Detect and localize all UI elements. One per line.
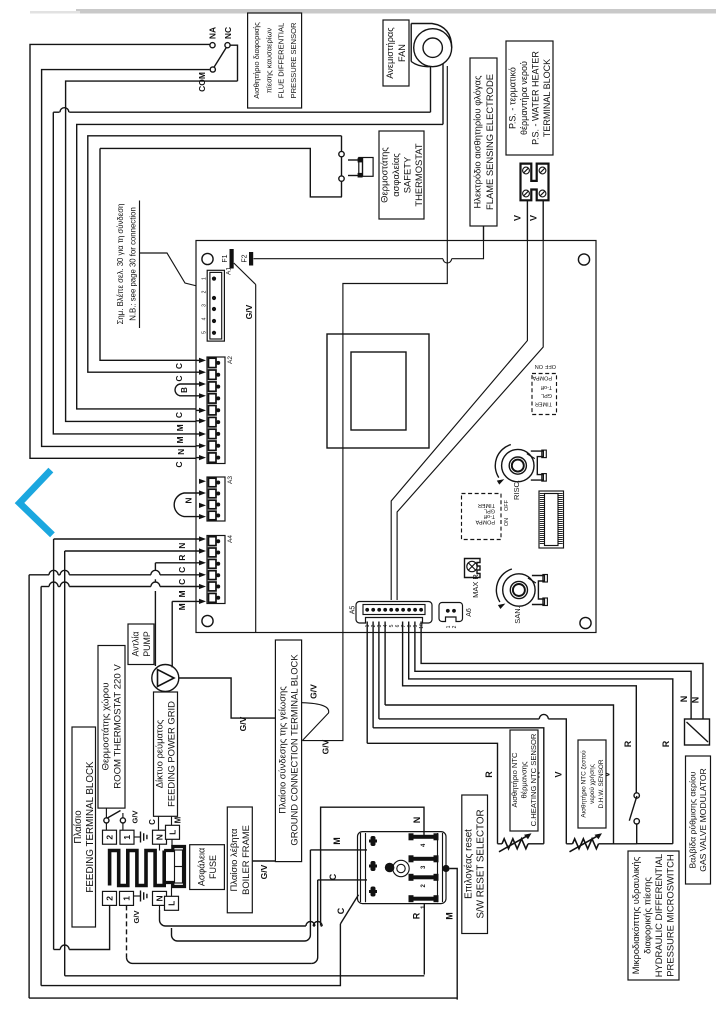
svg-text:OFF: OFF xyxy=(504,499,510,511)
svg-text:Ασφάλεια: Ασφάλεια xyxy=(196,848,206,886)
svg-text:ON: ON xyxy=(504,518,510,526)
svg-text:R: R xyxy=(484,771,494,778)
selector left wire C xyxy=(318,879,367,881)
terminal square N bottom xyxy=(153,891,167,905)
svg-text:G/V: G/V xyxy=(259,864,269,879)
svg-text:2: 2 xyxy=(452,625,458,628)
svg-text:C: C xyxy=(177,567,187,573)
ground hook pointer xyxy=(302,703,329,741)
svg-text:G/V: G/V xyxy=(309,684,319,699)
pins7-10 wires right xyxy=(403,622,637,793)
transformer xyxy=(327,334,429,448)
svg-text:ασφαλείας: ασφαλείας xyxy=(390,153,401,197)
box D.H.W. SENSOR xyxy=(578,740,606,828)
svg-text:G/V: G/V xyxy=(321,739,331,754)
svg-text:Πλαίσιο: Πλαίσιο xyxy=(73,810,84,844)
svg-text:N: N xyxy=(155,895,165,901)
heating NTC thermistor xyxy=(498,843,503,845)
DIP switch dashed box 2 xyxy=(462,494,502,540)
svg-text:G/V: G/V xyxy=(238,716,248,731)
svg-text:2: 2 xyxy=(105,835,115,840)
svg-text:TERMINAL BLOCK: TERMINAL BLOCK xyxy=(542,59,552,137)
connector A4 xyxy=(207,536,225,604)
svg-text:SAN.: SAN. xyxy=(513,606,522,624)
A5 pin wires down xyxy=(366,622,368,744)
svg-text:Σημ. Βλέπε σελ. 30 για τη σύνδ: Σημ. Βλέπε σελ. 30 για τη σύνδεση xyxy=(116,204,125,325)
A4 N vertical down xyxy=(53,539,55,950)
svg-text:Πλαίσιο σύνδεσης της γείωσης: Πλαίσιο σύνδεσης της γείωσης xyxy=(277,686,288,814)
svg-text:ROOM THERMOSTAT 220 V: ROOM THERMOSTAT 220 V xyxy=(113,664,124,789)
svg-text:1: 1 xyxy=(202,277,208,280)
svg-text:MAX R.: MAX R. xyxy=(471,572,480,598)
connector A1 xyxy=(207,270,224,341)
svg-text:C.HEATING NTC SENSOR: C.HEATING NTC SENSOR xyxy=(529,733,538,826)
bus C2: to selector diagonal C xyxy=(41,924,340,986)
svg-text:FLAME SENSING ELECTRODE: FLAME SENSING ELECTRODE xyxy=(484,74,495,210)
wire G/V down through board xyxy=(255,285,257,633)
svg-text:T-off: T-off xyxy=(541,384,552,390)
wire 5 xyxy=(77,124,443,409)
svg-text:RISC.: RISC. xyxy=(512,480,521,500)
terminal squares 2 1 top xyxy=(103,830,117,844)
wire COM-NA feed 1 xyxy=(30,44,210,458)
svg-text:N: N xyxy=(184,497,194,503)
connector A6 xyxy=(439,603,463,622)
terminal screws xyxy=(523,167,530,174)
svg-text:GPL: GPL xyxy=(541,392,552,398)
fuse F2 xyxy=(249,252,253,266)
DHW NTC right wire V xyxy=(385,705,613,844)
wire F1 diagonal to G/V vertical xyxy=(234,263,256,285)
svg-text:FLUE DIFFERENTIAL: FLUE DIFFERENTIAL xyxy=(277,23,286,99)
svg-text:M: M xyxy=(175,436,185,443)
bus M: L-box to selector M left wire xyxy=(172,928,305,941)
svg-text:R: R xyxy=(412,912,422,919)
selector left diagonal wire C xyxy=(340,895,358,924)
box FEEDING TERMINAL BLOCK xyxy=(72,727,96,927)
svg-text:S/W RESET SELECTOR: S/W RESET SELECTOR xyxy=(476,809,487,918)
wire fan-side vertical through board to ground area xyxy=(343,66,447,633)
svg-text:R: R xyxy=(177,555,187,561)
selector centre ring xyxy=(393,860,409,876)
svg-text:A5: A5 xyxy=(350,606,357,615)
svg-text:C: C xyxy=(328,873,338,880)
ground terminal block box GROUND CONNECTION TERMINAL BLOCK xyxy=(275,640,301,862)
svg-text:Δίκτυο ρεύματος: Δίκτυο ρεύματος xyxy=(154,719,165,788)
fuse F1 xyxy=(230,249,234,269)
svg-text:M: M xyxy=(173,816,182,823)
box C.HEATING NTC SENSOR xyxy=(510,730,538,831)
terminal square L bottom xyxy=(165,896,179,910)
svg-text:SAFETY: SAFETY xyxy=(401,156,412,193)
svg-text:A6: A6 xyxy=(466,608,473,617)
selector wire M down (right end) xyxy=(450,869,458,1000)
gas valve modulator symbol xyxy=(685,719,710,745)
svg-text:R: R xyxy=(623,740,633,747)
svg-text:NA: NA xyxy=(208,27,218,39)
svg-text:C: C xyxy=(174,461,184,467)
svg-text:GAS VALVE MODULATOR: GAS VALVE MODULATOR xyxy=(698,768,708,871)
terminal squares 2 1 bottom xyxy=(103,891,117,905)
svg-text:FEEDING TERMINAL BLOCK: FEEDING TERMINAL BLOCK xyxy=(85,761,96,893)
bus N: N-box to selector N vertical xyxy=(160,910,306,926)
connector A2 xyxy=(207,357,225,464)
bus h0: square2 to A4-N vertical xyxy=(69,905,109,949)
box BOILER FRAME xyxy=(227,807,252,913)
svg-text:POMPA: POMPA xyxy=(532,375,552,381)
A4 C vertical down to bus C2 xyxy=(40,587,42,986)
board mounting holes xyxy=(202,253,213,264)
switch contact COM xyxy=(210,67,215,72)
V wire pair diagonal across board xyxy=(391,241,527,600)
wire 2 xyxy=(42,70,210,447)
svg-text:Θερμοστάτης: Θερμοστάτης xyxy=(378,147,389,203)
svg-text:Αισθητήριο NTC: Αισθητήριο NTC xyxy=(510,752,519,808)
earth symbol top xyxy=(140,832,142,843)
svg-text:A1: A1 xyxy=(226,267,233,275)
svg-text:A2: A2 xyxy=(227,356,234,364)
svg-text:POMPA: POMPA xyxy=(475,519,495,525)
svg-text:A3: A3 xyxy=(227,476,234,484)
box PUMP xyxy=(128,624,154,665)
wire 3 (hops px65.6) xyxy=(53,111,59,113)
svg-text:5: 5 xyxy=(202,331,208,334)
heating NTC left wire R xyxy=(367,743,497,844)
DHW NTC left wire V (hop) xyxy=(379,718,539,720)
A4 wire arrows xyxy=(199,536,206,541)
svg-text:B: B xyxy=(180,387,189,393)
svg-text:R: R xyxy=(661,740,671,747)
svg-text:M: M xyxy=(332,837,342,845)
svg-text:N: N xyxy=(412,817,422,824)
note leader arrow to A1 pin1 xyxy=(140,253,203,288)
svg-text:νερού χρήσης: νερού χρήσης xyxy=(588,764,596,804)
jumper loop B on A2 xyxy=(175,384,200,396)
svg-text:C: C xyxy=(177,579,187,585)
svg-text:N: N xyxy=(691,697,701,704)
svg-text:PRESSURE MICROSWITCH: PRESSURE MICROSWITCH xyxy=(665,854,676,976)
svg-text:P.S. - τερματικό: P.S. - τερματικό xyxy=(507,67,517,129)
svg-text:2: 2 xyxy=(202,290,208,293)
svg-text:Επιλογέας reset: Επιλογέας reset xyxy=(464,829,475,899)
svg-text:10: 10 xyxy=(419,623,425,629)
svg-text:F2: F2 xyxy=(241,254,248,262)
selector left wire M xyxy=(310,849,367,851)
wire V1 xyxy=(526,200,528,241)
svg-text:FUSE: FUSE xyxy=(208,855,218,879)
N L to comb/fuse links xyxy=(159,844,161,850)
box HYDRAULIC DIFFERENTIAL PRESSURE MICROSWITCH xyxy=(628,851,679,980)
wire V2 xyxy=(542,200,544,241)
DIP switch dashed box 1 xyxy=(532,374,557,415)
A4 R vertical down to bus R xyxy=(64,551,66,976)
svg-text:N: N xyxy=(177,543,187,549)
svg-text:Ηλεκτρόδιο αισθητηρίου φλόγας: Ηλεκτρόδιο αισθητηρίου φλόγας xyxy=(471,75,482,208)
selector wire N (to A5 area via bottom bus) xyxy=(321,807,424,925)
selector contacts right column with pins 4..1 xyxy=(412,835,435,839)
svg-text:HYDRAULIC DIFFERENTIAL: HYDRAULIC DIFFERENTIAL xyxy=(653,854,664,977)
svg-text:M: M xyxy=(175,424,185,431)
svg-text:M: M xyxy=(177,603,187,610)
connector A3 xyxy=(207,477,225,521)
svg-text:F1: F1 xyxy=(222,254,229,262)
PCB main board outline xyxy=(196,241,596,633)
switch contact NA xyxy=(210,43,215,48)
svg-text:C: C xyxy=(336,907,346,914)
svg-text:V: V xyxy=(554,771,564,777)
DIP switch bank (hatched IC) xyxy=(539,491,564,548)
svg-text:θέρμαντήρα νερού: θέρμαντήρα νερού xyxy=(519,61,529,135)
svg-text:Ανεμιστήρας: Ανεμιστήρας xyxy=(385,27,395,79)
svg-text:FAN: FAN xyxy=(397,44,407,62)
svg-text:1: 1 xyxy=(122,896,132,901)
box FUSE xyxy=(190,845,225,890)
svg-text:A4: A4 xyxy=(227,535,234,543)
svg-text:Μικροδιακόπτης υδραυλικής: Μικροδιακόπτης υδραυλικής xyxy=(630,856,641,974)
svg-text:OFF: OFF xyxy=(544,363,556,369)
selector contacts left column xyxy=(369,840,377,843)
grey page top band xyxy=(76,9,716,14)
svg-text:Θερμοστάτης χώρου: Θερμοστάτης χώρου xyxy=(101,683,112,771)
box ROOM THERMOSTAT 220 V xyxy=(98,646,125,809)
terminal square N top xyxy=(153,830,167,844)
A4 wires from left xyxy=(54,538,201,540)
svg-text:G/V: G/V xyxy=(131,811,140,824)
wires grid to N L xyxy=(158,816,160,830)
fan wire 1 xyxy=(430,67,432,112)
wire from board G/V down to ground block xyxy=(302,633,343,741)
svg-text:N: N xyxy=(176,449,186,455)
svg-text:THERMOSTAT: THERMOSTAT xyxy=(413,143,424,206)
svg-text:3: 3 xyxy=(202,304,208,307)
wire F2 to flame electrode line xyxy=(254,258,444,260)
wire 6 xyxy=(88,136,342,372)
pump wires up to A4 xyxy=(154,563,156,571)
S/W reset selector component xyxy=(358,832,447,904)
svg-text:N.B.: see page 30 for connecti: N.B.: see page 30 for connection xyxy=(128,207,137,321)
box FLUE DIFFERENTIAL PRESSURE SENSOR xyxy=(248,13,302,108)
terminal block H-body xyxy=(521,164,549,201)
svg-text:Πλαίσιο λέβητα: Πλαίσιο λέβητα xyxy=(228,828,239,892)
svg-text:C: C xyxy=(174,375,184,381)
A4 M vertical down to bus M2 xyxy=(28,575,30,998)
potentiometer RISC. xyxy=(502,449,534,481)
heating NTC right wire R xyxy=(373,728,544,844)
svg-text:NC: NC xyxy=(223,27,233,39)
selector wire R down xyxy=(423,904,425,975)
pump ground wire G/V to ground block xyxy=(179,678,276,718)
svg-text:2: 2 xyxy=(105,896,115,901)
jumper loop N on A3 xyxy=(174,493,200,517)
bus M2: to selector M xyxy=(29,997,457,999)
svg-text:PRESSURE SENSOR: PRESSURE SENSOR xyxy=(289,22,298,98)
A3 wire arrows xyxy=(199,479,206,484)
svg-text:Αισθητήριο NTC ζεστού: Αισθητήριο NTC ζεστού xyxy=(580,750,588,818)
terminal square L top xyxy=(166,825,180,839)
fuse carrier xyxy=(164,847,184,887)
svg-text:Αισθητήριο διαφορικής: Αισθητήριο διαφορικής xyxy=(252,22,261,99)
trimmer MAX R xyxy=(465,559,481,578)
blue navigation chevron overlay xyxy=(20,473,51,533)
svg-text:P.S. - WATER HEATER: P.S. - WATER HEATER xyxy=(530,51,540,145)
A4 wire6 M from pump xyxy=(172,600,200,602)
svg-text:ON: ON xyxy=(535,363,543,369)
svg-text:GROUND CONNECTION TERMINAL BLO: GROUND CONNECTION TERMINAL BLOCK xyxy=(289,654,300,846)
switch contact NC xyxy=(225,43,230,48)
svg-text:PUMP: PUMP xyxy=(142,631,152,657)
bus R: to selector R xyxy=(65,975,425,977)
safety thermostat contacts xyxy=(339,151,344,156)
svg-text:V: V xyxy=(529,215,539,221)
svg-text:N: N xyxy=(679,696,689,703)
flame electrode wire xyxy=(483,226,485,261)
box S/W RESET SELECTOR xyxy=(462,795,488,934)
wire DHW bottom to microswitch bottom xyxy=(614,843,637,845)
svg-text:BOILER FRAME: BOILER FRAME xyxy=(240,825,251,895)
svg-text:C: C xyxy=(174,363,184,369)
svg-text:D.H.W. SENSOR: D.H.W. SENSOR xyxy=(598,759,605,808)
box FLAME SENSING ELECTRODE xyxy=(470,58,497,226)
switch arm xyxy=(214,48,226,68)
A2 wire arrows xyxy=(199,358,206,363)
svg-text:L: L xyxy=(168,830,178,835)
box SAFETY THERMOSTAT xyxy=(379,131,424,219)
svg-text:N: N xyxy=(155,834,165,840)
A4 wire3 from pump vertical xyxy=(155,562,200,564)
potentiometer SAN. xyxy=(503,574,535,606)
feeding terminal comb xyxy=(110,851,165,886)
svg-text:πίεσης καυσαερίων: πίεσης καυσαερίων xyxy=(264,28,273,94)
box GAS VALVE MODULATOR xyxy=(686,756,711,884)
svg-text:C: C xyxy=(174,412,184,418)
safety thermostat capsule xyxy=(348,159,359,161)
svg-text:Αντλία: Αντλία xyxy=(130,631,140,656)
svg-text:M: M xyxy=(177,590,187,597)
fan symbol xyxy=(411,24,452,48)
box FEEDING POWER GRID xyxy=(154,692,178,816)
svg-text:TIMER: TIMER xyxy=(478,502,495,508)
A4 wire4 C (hops) xyxy=(29,574,49,576)
svg-text:διαφορικής πίεσης: διαφορικής πίεσης xyxy=(642,877,653,954)
svg-text:M: M xyxy=(445,912,455,920)
svg-text:1: 1 xyxy=(122,835,132,840)
wire NC to nest xyxy=(230,45,237,81)
svg-text:G/V: G/V xyxy=(244,304,254,319)
svg-text:G/V: G/V xyxy=(132,911,141,924)
svg-text:T-off: T-off xyxy=(484,513,495,519)
earth symbol bottom xyxy=(140,891,142,902)
A4 wire5 C (hops) xyxy=(41,586,49,588)
svg-text:COM: COM xyxy=(197,72,207,92)
svg-text:FEEDING POWER GRID: FEEDING POWER GRID xyxy=(166,701,177,807)
svg-text:θέρμανσης: θέρμανσης xyxy=(520,761,529,798)
fan wire 2 xyxy=(442,64,444,124)
bus C1: square1 to selector C left wire xyxy=(126,905,128,957)
wire boiler frame to ground block xyxy=(252,860,275,862)
svg-text:V: V xyxy=(513,215,523,221)
svg-text:TIMER: TIMER xyxy=(535,401,552,407)
box FAN label xyxy=(383,20,409,86)
svg-text:4: 4 xyxy=(202,317,208,320)
connector A5 xyxy=(356,602,432,624)
room thermostat switch xyxy=(104,818,109,823)
hydraulic pressure microswitch xyxy=(634,793,639,798)
svg-text:L: L xyxy=(167,901,177,906)
box P.S. WATER HEATER TERMINAL BLOCK xyxy=(506,41,553,155)
DHW thermistor xyxy=(566,843,572,845)
svg-text:Βαλβίδα ρύθμισης αερίου: Βαλβίδα ρύθμισης αερίου xyxy=(687,771,697,868)
svg-text:GPL: GPL xyxy=(484,508,495,514)
wire 4 xyxy=(66,81,238,421)
svg-text:C: C xyxy=(148,819,157,825)
wire 7 (safety stat lower) xyxy=(100,148,196,360)
